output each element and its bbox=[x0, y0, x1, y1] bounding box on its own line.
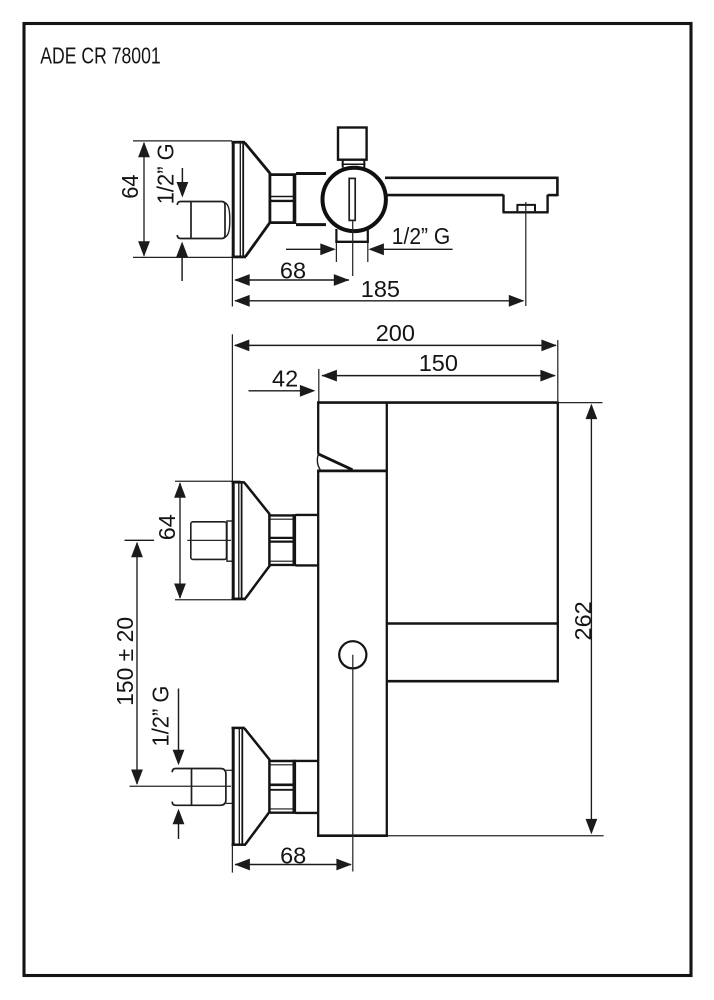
wall extension line (upper) bbox=[231, 334, 233, 481]
pipe A dome cap bbox=[224, 202, 230, 237]
escutcheon bell A bbox=[232, 141, 270, 258]
dim 150±20 line bbox=[136, 543, 138, 784]
svg-text:150: 150 bbox=[419, 350, 458, 376]
connector segment C bbox=[296, 761, 320, 813]
dim 262 bbox=[590, 405, 592, 833]
mixer body circle bbox=[323, 168, 386, 231]
dim 68 line (bottom) bbox=[235, 864, 351, 866]
column center line bbox=[352, 655, 354, 872]
1/2G up arrow shaft bbox=[181, 255, 183, 281]
spout box top edge bbox=[317, 401, 559, 404]
escutcheon bell C bbox=[232, 728, 270, 845]
svg-text:64: 64 bbox=[117, 174, 143, 198]
wall extension below C bbox=[231, 846, 233, 873]
dim 200 line bbox=[235, 344, 556, 346]
pipe B (threaded, rounded) bbox=[191, 522, 227, 560]
knob bbox=[338, 128, 367, 160]
dim 185 line bbox=[235, 300, 524, 302]
svg-text:ADE CR 78001: ADE CR 78001 bbox=[40, 43, 160, 69]
knob stem bbox=[342, 160, 366, 168]
outlet extension lines bbox=[335, 243, 337, 262]
pipe C axis line bbox=[130, 785, 232, 787]
svg-text:150 ± 20: 150 ± 20 bbox=[112, 617, 138, 706]
dim 42 line bbox=[249, 390, 301, 392]
dim 64 bottom extension line bbox=[133, 256, 232, 258]
outlet pipe below circle bbox=[335, 229, 369, 242]
aerator housing bbox=[503, 195, 549, 213]
svg-text:68: 68 bbox=[280, 257, 306, 283]
262 bottom extension line bbox=[388, 835, 604, 837]
aerator insert bbox=[517, 205, 536, 211]
pipe C connection ticks bbox=[226, 769, 232, 771]
column bottom edge bbox=[317, 834, 388, 837]
lever bottom line bbox=[317, 469, 388, 472]
svg-text:1/2” G: 1/2” G bbox=[392, 223, 451, 249]
escutcheon bell B bbox=[232, 482, 270, 600]
nut C bbox=[270, 760, 296, 814]
dim 150±20 top tick bbox=[125, 539, 155, 541]
body-left extension line bbox=[318, 369, 320, 402]
svg-text:64: 64 bbox=[154, 514, 180, 540]
lever diagonal bbox=[318, 454, 353, 470]
connector band A bbox=[296, 174, 326, 225]
wall pipe A (threaded inlet) bbox=[177, 202, 225, 239]
nut B bbox=[270, 514, 296, 566]
handle slot bbox=[349, 178, 355, 220]
pipe B axis line bbox=[187, 539, 231, 541]
svg-text:185: 185 bbox=[361, 276, 400, 302]
1/2G outlet left arrow bbox=[286, 248, 321, 250]
1/2G up arrowhead bbox=[176, 242, 188, 258]
column left edge (upper) bbox=[317, 402, 319, 454]
1/2G down arrow shaft bbox=[181, 168, 183, 186]
svg-text:42: 42 bbox=[272, 366, 298, 392]
C 1/2G up arrow bbox=[173, 809, 185, 825]
dim 64 line bbox=[143, 143, 145, 256]
lever arc bbox=[317, 454, 320, 471]
pipe C thread line bbox=[191, 769, 193, 806]
diverter circle bbox=[339, 641, 366, 668]
262 top extension line bbox=[559, 402, 603, 404]
dim 64 line (B) bbox=[179, 483, 181, 598]
svg-text:262: 262 bbox=[570, 601, 596, 640]
pipe A thread line bbox=[190, 202, 192, 239]
spout band top edge bbox=[387, 622, 560, 625]
spout band bottom edge bbox=[387, 680, 560, 683]
svg-text:1/2” G: 1/2” G bbox=[148, 686, 174, 747]
nut A bbox=[271, 173, 296, 223]
right extension line (above spout box) bbox=[557, 340, 559, 401]
svg-text:68: 68 bbox=[280, 842, 306, 868]
collar B bbox=[227, 521, 233, 561]
svg-text:200: 200 bbox=[376, 320, 415, 346]
1/2G outlet right arrow bbox=[383, 248, 453, 250]
connector segment B bbox=[296, 515, 320, 566]
dim 64 ext lines (B) bbox=[175, 480, 241, 482]
aerator center line bbox=[525, 202, 527, 306]
pipe C (threaded) bbox=[172, 769, 226, 806]
1/2G down arrowhead bbox=[177, 182, 189, 198]
body center line bbox=[352, 221, 354, 276]
wall extension line below bell A bbox=[231, 258, 233, 307]
dim 68 line (top) bbox=[235, 279, 349, 281]
dim 150 line bbox=[322, 375, 555, 377]
dim 64 top extension line bbox=[133, 140, 232, 142]
column left edge (lower) bbox=[317, 471, 319, 837]
dim 64 arrow up bbox=[138, 142, 150, 158]
dim 64 arrow down bbox=[138, 241, 150, 257]
column right edge bbox=[386, 402, 388, 837]
C 1/2G down arrow bbox=[178, 689, 180, 754]
spout box right edge bbox=[557, 402, 559, 683]
svg-text:1/2” G: 1/2” G bbox=[152, 143, 178, 204]
spout bbox=[385, 177, 557, 197]
